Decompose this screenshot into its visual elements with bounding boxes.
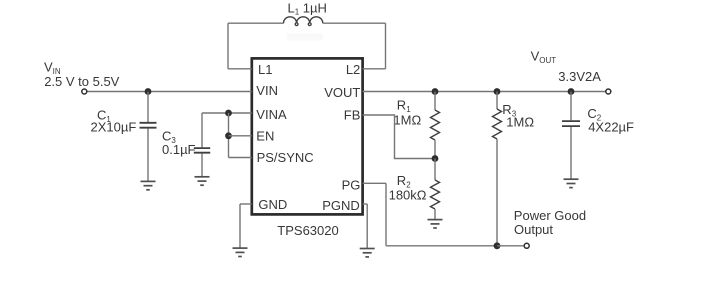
terminal output (606, 89, 611, 94)
wire R2 upper stem (434, 159, 436, 181)
svg-text:VIN: VIN (256, 83, 278, 98)
ground PGND pin (360, 249, 375, 257)
wire R3 lower stem (496, 139, 498, 246)
wire VOUT rail (363, 91, 606, 93)
svg-text:FB: FB (344, 108, 361, 123)
wire inductor right vertical (385, 23, 387, 69)
wire FB (363, 115, 435, 159)
svg-text:1MΩ: 1MΩ (506, 114, 534, 129)
terminal power good (524, 243, 529, 248)
junction C1/VIN (145, 88, 152, 95)
resistor R3 (493, 109, 502, 139)
svg-text:L2: L2 (346, 62, 360, 77)
wire EN stub (229, 135, 252, 137)
svg-text:180kΩ: 180kΩ (389, 188, 427, 203)
capacitor C3 (194, 148, 210, 153)
terminal input (82, 89, 87, 94)
svg-text:0.1µF: 0.1µF (162, 142, 196, 157)
wire R1 upper stem (434, 92, 436, 111)
wire C2 lower stem (570, 127, 572, 179)
capacitor C1 (140, 123, 157, 128)
wire VINA to C3 (201, 113, 203, 147)
wire C1 upper stem (147, 92, 149, 123)
wire L1 pin stub (228, 68, 252, 70)
svg-text:PGND: PGND (322, 198, 360, 213)
wire VINA (202, 112, 252, 114)
junction R3 top (494, 88, 501, 95)
wire R1 lower stem (434, 140, 436, 159)
wire GND vertical (239, 204, 241, 248)
junction VINA bus (225, 110, 232, 117)
junction PG/R3 (494, 242, 501, 249)
ground C3 (195, 177, 210, 185)
junction C2 top (568, 88, 575, 95)
ground GND pin (233, 248, 248, 256)
wire VINA/EN/PS bus (228, 113, 230, 158)
ghost watermark (287, 34, 323, 41)
wire inductor left vertical (227, 23, 229, 69)
resistor R1 (431, 110, 440, 140)
wire PG horizontal (386, 245, 497, 247)
svg-text:2.5 V to 5.5V: 2.5 V to 5.5V (44, 74, 119, 89)
wire L2 pin stub (363, 68, 386, 70)
svg-text:4X22µF: 4X22µF (588, 120, 634, 135)
capacitor C2 (562, 121, 580, 126)
wire PGND vertical (366, 204, 368, 248)
ground C2 (564, 179, 579, 187)
inductor L1 (284, 17, 323, 26)
wire GND stub (240, 203, 252, 205)
svg-text:Output: Output (514, 222, 553, 237)
ground R2 (428, 220, 443, 228)
wire R2 lower stem (434, 209, 436, 219)
IC U1 TPS63020 (252, 58, 363, 214)
svg-text:2X10µF: 2X10µF (91, 120, 137, 135)
wire C1 lower stem (147, 129, 149, 182)
svg-text:GND: GND (258, 197, 287, 212)
wire PG stub (363, 182, 386, 184)
ground C1 (141, 181, 156, 189)
wire PGND stub (363, 203, 368, 205)
resistor R2 (431, 180, 440, 209)
svg-text:Power Good: Power Good (514, 208, 586, 223)
svg-text:3.3V2A: 3.3V2A (558, 69, 601, 84)
svg-text:VOUT: VOUT (531, 48, 557, 65)
svg-text:EN: EN (256, 129, 274, 144)
svg-text:TPS63020: TPS63020 (277, 223, 338, 238)
svg-text:L1: L1 (258, 62, 272, 77)
svg-text:PG: PG (342, 177, 361, 192)
wire inductor top right (323, 22, 386, 24)
svg-text:R1: R1 (397, 97, 411, 114)
wire C3 lower stem (201, 153, 203, 176)
junction EN bus (225, 132, 232, 139)
wire C2 upper stem (570, 92, 572, 121)
junction R1 top (432, 88, 439, 95)
wire inductor top left (228, 22, 284, 24)
wire PG to terminal (497, 245, 524, 247)
svg-text:VINA: VINA (256, 107, 287, 122)
svg-text:PS/SYNC: PS/SYNC (257, 150, 314, 165)
wire R3 upper stem (496, 92, 498, 110)
svg-text:L1 1µH: L1 1µH (288, 1, 327, 17)
svg-text:VOUT: VOUT (324, 85, 360, 100)
wire PS/SYNC stub (229, 157, 252, 159)
junction FB divider (432, 155, 439, 162)
wire input VIN (87, 91, 252, 93)
svg-text:1MΩ: 1MΩ (393, 113, 421, 128)
wire PG vertical (385, 183, 387, 246)
